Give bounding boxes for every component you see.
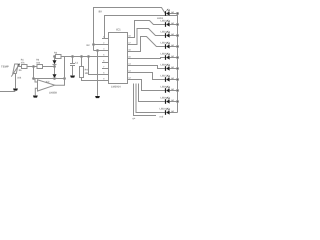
node bus dot 3 — [177, 35, 179, 37]
wire R4 top lead — [81, 57, 83, 67]
wire node B down to op-amp input node — [33, 67, 35, 79]
LED D1 — [165, 9, 178, 16]
wire IC bottom to LED10 — [136, 84, 166, 113]
pin stub right 2 — [128, 42, 134, 45]
svg-text:rot: rot — [171, 88, 174, 91]
svg-text:red: red — [160, 116, 164, 119]
pin stub left 6 — [102, 66, 109, 69]
svg-text:LED8: LED8 — [161, 86, 168, 89]
LED D3 — [165, 31, 178, 38]
pin stub right 7 — [128, 77, 134, 80]
svg-text:LED4: LED4 — [161, 42, 168, 45]
resistor R3 — [56, 55, 62, 59]
svg-text:IC1: IC1 — [116, 28, 121, 32]
svg-text:LED5: LED5 — [161, 53, 168, 56]
label LED6 value — [171, 66, 174, 69]
label LED8 value — [171, 88, 174, 91]
node R4 top junction dot — [81, 56, 83, 58]
node tee dot R3-D1 — [54, 56, 56, 58]
label LED4 value — [171, 44, 174, 47]
pin stub left 8 — [102, 78, 109, 81]
wire top V+ rail y7 — [94, 8, 166, 51]
node bus dot 8 — [177, 90, 179, 92]
svg-text:LED3: LED3 — [161, 31, 168, 34]
label capacitor — [75, 61, 79, 64]
LED D7 — [165, 75, 178, 82]
wire x104 joins pin1 — [102, 38, 105, 40]
LED D4 — [165, 42, 178, 49]
IC IC1 body — [109, 33, 128, 84]
label LED6 — [161, 64, 168, 67]
node bus dot 5 — [177, 57, 179, 59]
svg-text:LED9: LED9 — [161, 97, 168, 100]
svg-text:rot: rot — [171, 110, 174, 113]
svg-text:9V: 9V — [99, 9, 103, 13]
svg-text:10k: 10k — [17, 77, 22, 80]
thermistor R5 body — [13, 64, 18, 74]
svg-text:TEMP: TEMP — [1, 65, 9, 69]
wire x88 branch to IC pin7 — [89, 57, 103, 75]
wire analog main y56 — [55, 56, 103, 58]
text TEMP label — [1, 65, 9, 69]
wire op-amp output up — [55, 57, 65, 86]
label LED7 — [161, 75, 168, 78]
wire IC pin3 from left rail — [94, 50, 103, 52]
node feedback junction dot — [64, 78, 66, 80]
resistor R2 — [37, 65, 43, 69]
ground GND3 op-amp — [33, 96, 38, 98]
LED D8 — [165, 86, 178, 93]
label op-amp part — [49, 92, 57, 95]
pin stub right 6 — [128, 70, 134, 73]
pin stub left 2 — [102, 42, 109, 45]
thermistor R5 arrow — [11, 63, 20, 76]
svg-text:rot: rot — [171, 11, 174, 14]
label thermistor value — [17, 77, 22, 80]
wire pin r2 to LED3 — [133, 29, 166, 45]
label LED10 value — [171, 110, 174, 113]
wire feedback to op-amp plus input — [34, 78, 65, 80]
node cap junction dot — [72, 56, 74, 58]
wire R1 to node B — [27, 66, 37, 68]
label LED5 — [161, 53, 168, 56]
node bus dot 6 — [177, 68, 179, 70]
ground GND1 below IC — [95, 96, 100, 98]
svg-text:LED7: LED7 — [161, 75, 168, 78]
wire pin r7 to LED8 — [133, 80, 166, 91]
label net N2 — [87, 44, 91, 47]
label LED2 value — [171, 22, 174, 25]
wire second top rail to LED anode bus — [105, 14, 178, 39]
svg-text:LED6: LED6 — [161, 64, 168, 67]
wire pin r4 to LED5 — [133, 58, 166, 59]
LED D9 — [165, 97, 178, 104]
label R3 — [54, 52, 58, 55]
label LED10 — [160, 108, 168, 111]
label LED3 — [161, 31, 168, 34]
label LED9 — [161, 97, 168, 100]
label IC part LM3914 — [111, 85, 121, 88]
wire R2 to diode mid node — [43, 66, 55, 68]
pin stub left 1 — [102, 36, 109, 39]
LED D5 — [165, 53, 178, 60]
node junction dot left rail — [93, 44, 95, 46]
label R1 — [21, 59, 25, 62]
ground GND4 cap — [70, 76, 75, 78]
trimmer R4 body — [80, 67, 84, 78]
wire pin r1 to LED2 — [133, 21, 166, 38]
wire plus input jog — [34, 79, 38, 83]
wire ground drop x97 — [97, 51, 99, 96]
wire IC bottom stub — [134, 84, 157, 116]
label LED7 value — [171, 77, 174, 80]
wire minus input to ground — [35, 88, 37, 95]
LED D2 — [165, 20, 178, 27]
svg-text:rot: rot — [171, 33, 174, 36]
label bottom net smudge — [133, 117, 136, 120]
node diode mid junction — [54, 66, 56, 68]
ground GND2 sensor — [13, 89, 18, 91]
op-amp IC2 triangle — [38, 80, 55, 91]
pin stub right 5 — [128, 63, 134, 66]
label LED5 value — [171, 55, 174, 58]
pin stub right 1 — [128, 35, 134, 38]
wire LED anode bus — [177, 14, 179, 113]
svg-text:rot: rot — [171, 77, 174, 80]
wire R4 bottom to IC pin8 — [82, 78, 103, 81]
label op-amp name — [46, 81, 50, 84]
node op-amp input dot — [33, 78, 35, 80]
svg-text:rot: rot — [171, 66, 174, 69]
node bus dot 7 — [177, 79, 179, 81]
node bus dot 1 — [177, 13, 179, 15]
label R2 — [36, 59, 40, 62]
svg-text:LED10: LED10 — [160, 108, 168, 111]
label LED4 — [161, 42, 168, 45]
node bus dot 4 — [177, 46, 179, 48]
diode D2 — [53, 67, 57, 79]
label LED3 value — [171, 33, 174, 36]
capacitor C1 — [70, 57, 75, 76]
svg-text:rot: rot — [171, 99, 174, 102]
label IC1 — [116, 28, 121, 32]
LED D10 — [165, 108, 178, 115]
pin stub left 3 — [102, 48, 109, 51]
diode D1 — [53, 57, 57, 67]
wire pin r3 to LED4 — [133, 37, 166, 52]
wire IC pin2 from left rail — [94, 44, 103, 46]
svg-text:rot: rot — [171, 22, 174, 25]
pin stub left 5 — [102, 60, 109, 63]
label LED1 — [157, 17, 164, 20]
pin stub right 3 — [128, 49, 134, 52]
pin stub left 7 — [102, 72, 109, 75]
label R4 — [85, 69, 89, 72]
svg-text:rot: rot — [171, 44, 174, 47]
wire pin r6 to LED7 — [133, 73, 166, 80]
label LED9 value — [171, 99, 174, 102]
wire thermistor bottom to ground — [15, 74, 17, 89]
wire IC bottom to LED9 — [139, 84, 166, 102]
wire bottom-left edge — [0, 91, 15, 93]
label thermistor name — [19, 69, 23, 72]
pin stub right 4 — [128, 56, 134, 59]
node diode bottom junction — [54, 78, 56, 80]
label LED1 value — [171, 11, 174, 14]
node B junction dot divider — [33, 66, 35, 68]
resistor R1 — [22, 65, 28, 69]
node tee dot x88 — [88, 56, 90, 58]
label LED10 value below — [160, 116, 164, 119]
LED D6 — [165, 64, 178, 71]
label supply net — [99, 9, 103, 13]
wire sensor to R1 — [18, 66, 22, 68]
node bus dot 9 — [177, 101, 179, 103]
svg-text:LED2: LED2 — [161, 20, 168, 23]
pin stub left 4 — [102, 54, 109, 57]
label LED2 — [161, 20, 168, 23]
svg-text:LM358: LM358 — [49, 92, 57, 95]
label LED8 — [161, 86, 168, 89]
svg-text:LM3914: LM3914 — [111, 85, 121, 88]
node tee dot gnd drop — [97, 50, 99, 52]
wire pin r5 to LED6 — [133, 66, 166, 69]
node bus dot 2 — [177, 24, 179, 26]
svg-text:rot: rot — [171, 55, 174, 58]
